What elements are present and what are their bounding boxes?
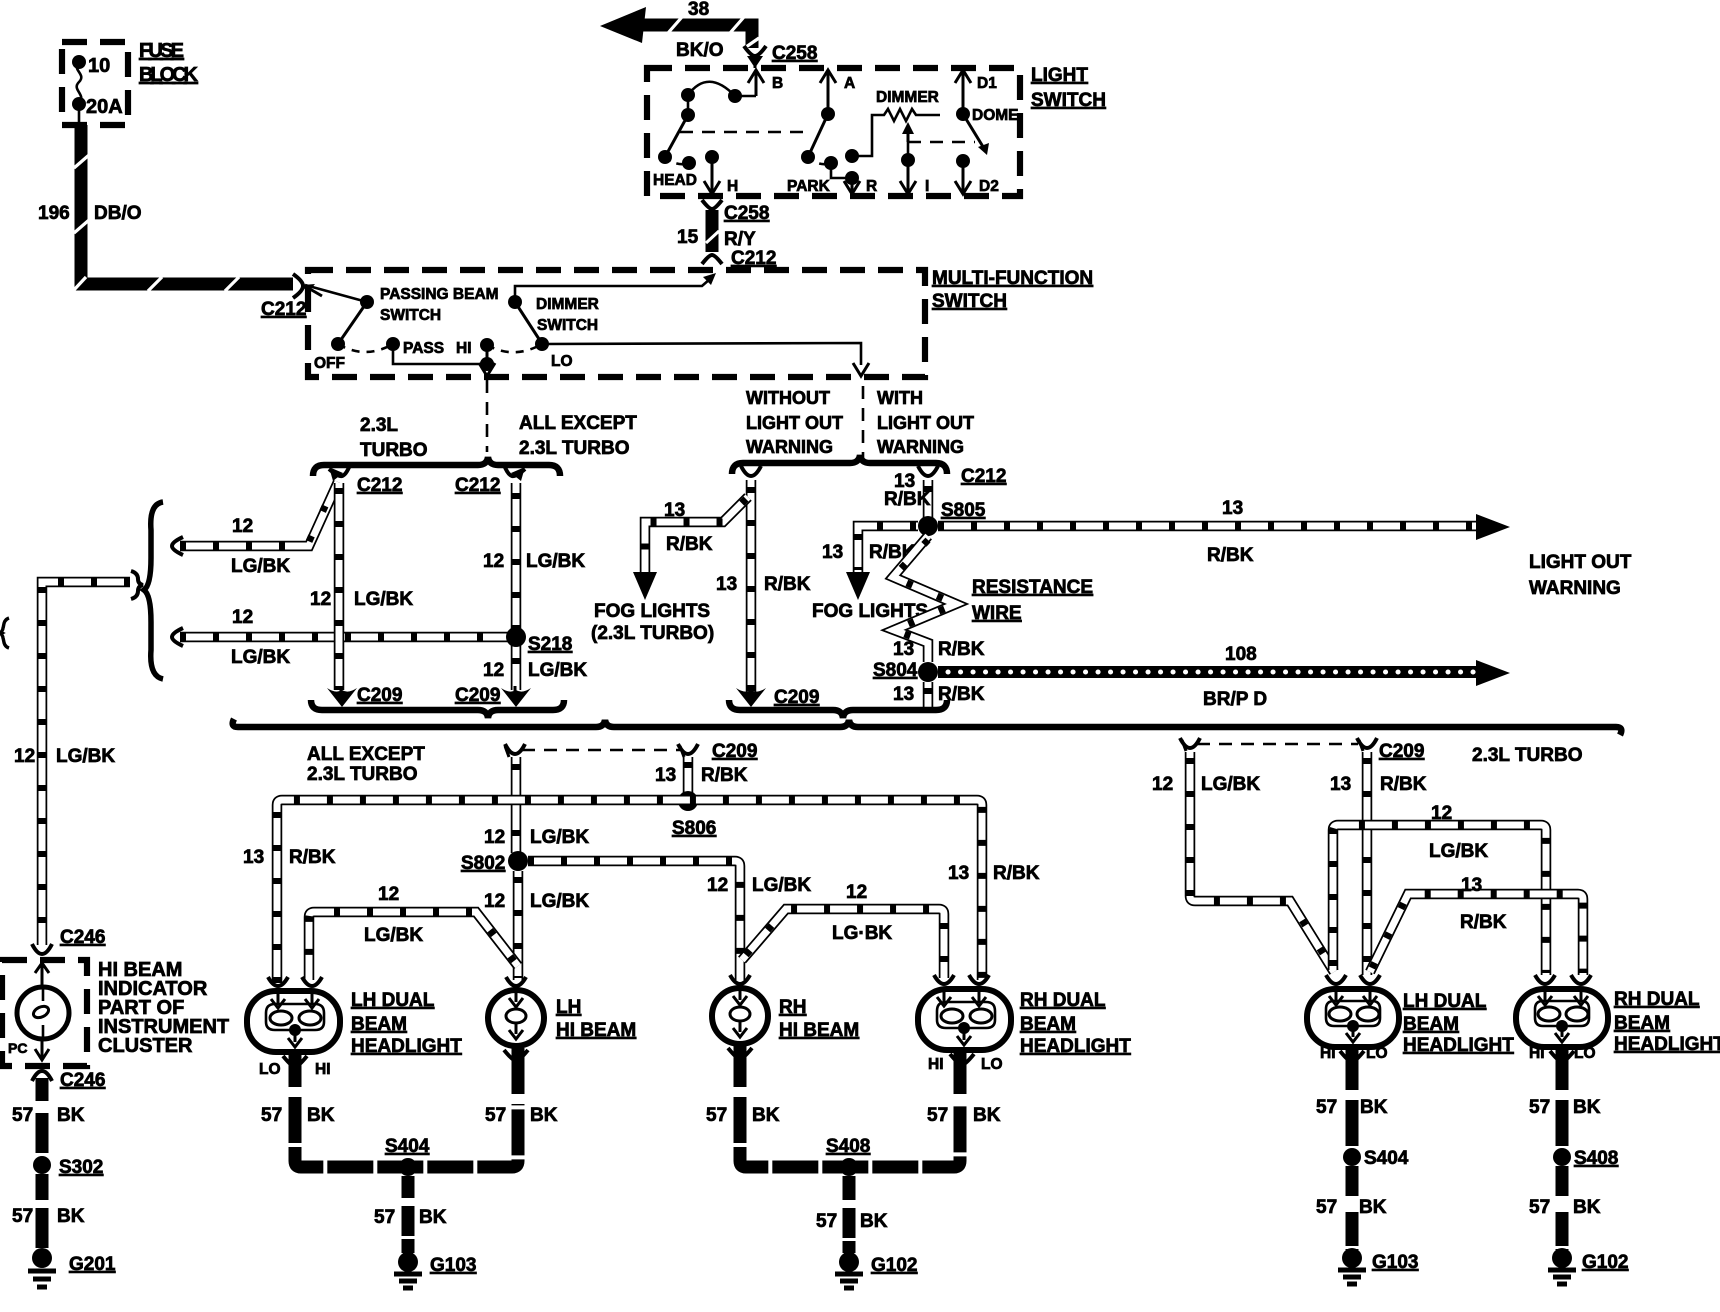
svg-text:WARNING: WARNING xyxy=(1529,578,1621,599)
svg-text:HEADLIGHT: HEADLIGHT xyxy=(1403,1035,1514,1056)
ground G102 xyxy=(835,1252,917,1288)
fog lights arrow (with-warning) xyxy=(812,572,928,622)
svg-text:S804: S804 xyxy=(873,660,918,681)
wire 12 LG/BK (S802 down to LH hi-beam lamp) xyxy=(513,871,524,980)
fuse block FUSE BLOCK xyxy=(62,42,128,125)
wire 12 LG/BK (right vertical, C212 to C209) xyxy=(483,483,585,690)
svg-text:WIRE: WIRE xyxy=(972,603,1022,624)
svg-text:R/BK: R/BK xyxy=(764,574,811,595)
label WITH LIGHT OUT WARNING xyxy=(877,388,974,457)
svg-text:2.3L TURBO: 2.3L TURBO xyxy=(307,764,418,785)
light switch box xyxy=(647,65,1106,196)
svg-text:LIGHT: LIGHT xyxy=(1031,65,1088,86)
svg-text:BR/P D: BR/P D xyxy=(1203,689,1267,710)
svg-text:BK: BK xyxy=(1360,1097,1388,1118)
svg-text:13: 13 xyxy=(1222,498,1243,519)
svg-text:C246: C246 xyxy=(60,1070,105,1091)
svg-text:C209: C209 xyxy=(712,741,757,762)
svg-text:12: 12 xyxy=(484,827,505,848)
svg-text:BEAM: BEAM xyxy=(1614,1013,1670,1034)
svg-text:HI: HI xyxy=(1320,1045,1336,1062)
svg-text:13: 13 xyxy=(1330,774,1351,795)
svg-text:BK: BK xyxy=(57,1206,85,1227)
svg-text:HI BEAM: HI BEAM xyxy=(556,1020,636,1041)
svg-text:SWITCH: SWITCH xyxy=(380,307,441,324)
light switch DOME switch xyxy=(956,107,1019,168)
svg-text:S408: S408 xyxy=(826,1136,870,1157)
svg-text:RESISTANCE: RESISTANCE xyxy=(972,577,1093,598)
svg-text:108: 108 xyxy=(1225,644,1257,665)
wire 38 BK/O xyxy=(600,0,759,61)
svg-text:C212: C212 xyxy=(731,248,776,269)
svg-text:R/BK: R/BK xyxy=(993,863,1040,884)
svg-text:R/BK: R/BK xyxy=(289,847,336,868)
splice S218 xyxy=(483,627,587,681)
svg-text:HI: HI xyxy=(456,340,472,357)
svg-text:LG/BK: LG/BK xyxy=(231,556,290,577)
splice S408 (turbo) xyxy=(1553,1148,1618,1169)
svg-text:LG·BK: LG·BK xyxy=(832,923,892,944)
svg-text:WARNING: WARNING xyxy=(746,437,833,457)
svg-text:C246: C246 xyxy=(60,927,105,948)
connector C246 (bottom of indicator) xyxy=(32,1070,105,1091)
connector C246 (top of indicator) xyxy=(32,927,105,966)
svg-text:B: B xyxy=(772,75,783,92)
svg-text:196: 196 xyxy=(38,203,70,224)
svg-text:C212: C212 xyxy=(357,475,402,496)
light switch PARK switch xyxy=(787,107,859,195)
wire 12 LG/BK (high beam bus) xyxy=(528,861,811,980)
wire 12 LG/BK (C209 to S802) xyxy=(484,757,589,853)
svg-text:C212: C212 xyxy=(455,475,500,496)
svg-text:LO: LO xyxy=(981,1056,1003,1073)
svg-text:12: 12 xyxy=(1431,803,1452,824)
svg-text:BK: BK xyxy=(752,1105,780,1126)
light switch terminal D2 xyxy=(955,161,999,195)
svg-text:C209: C209 xyxy=(357,685,402,706)
svg-text:LG/BK: LG/BK xyxy=(528,660,587,681)
svg-text:13: 13 xyxy=(948,863,969,884)
connector C212 (left, 2.3L turbo column) xyxy=(329,465,402,496)
svg-text:ALL EXCEPT: ALL EXCEPT xyxy=(307,744,425,765)
light switch terminal D1 xyxy=(955,70,997,114)
svg-text:OFF: OFF xyxy=(314,355,345,372)
headlight LH hi beam xyxy=(488,977,636,1061)
svg-text:2.3L TURBO: 2.3L TURBO xyxy=(1472,745,1583,766)
svg-text:DIMMER: DIMMER xyxy=(876,89,939,106)
svg-text:ALL EXCEPT: ALL EXCEPT xyxy=(519,413,637,434)
svg-text:PASS: PASS xyxy=(403,340,444,357)
svg-text:HI: HI xyxy=(315,1061,331,1078)
svg-text:13: 13 xyxy=(1461,875,1482,896)
svg-text:DB/O: DB/O xyxy=(94,203,142,224)
svg-text:WITHOUT: WITHOUT xyxy=(746,388,830,408)
wire 57 BK (turbo RH to ground) xyxy=(1529,1166,1601,1250)
wire dimmer pivot to C212 xyxy=(515,273,716,302)
wire 13 R/BK (turbo, C209 to LH dual LO) xyxy=(1330,752,1427,975)
svg-text:LIGHT OUT: LIGHT OUT xyxy=(746,413,843,433)
svg-text:LG/BK: LG/BK xyxy=(1429,841,1488,862)
svg-text:BK/O: BK/O xyxy=(676,40,724,61)
svg-text:R/BK: R/BK xyxy=(1460,912,1507,933)
splice S408 xyxy=(826,1136,870,1176)
wire 108 BR/P D (dotted, to right arrow) xyxy=(938,644,1510,710)
connector C209 (turbo R/BK) xyxy=(1357,738,1424,762)
wire LO output to warning column xyxy=(542,343,869,376)
svg-text:LG/BK: LG/BK xyxy=(354,589,413,610)
wire HI output (dashed below box) xyxy=(479,345,495,452)
svg-text:LO: LO xyxy=(551,353,573,370)
wire 13 R/BK (branch to fog lights 2.3L turbo) xyxy=(645,497,748,572)
ground G103 xyxy=(394,1252,476,1288)
splice S802 xyxy=(461,851,589,912)
label 2.3L TURBO (top right) xyxy=(1472,745,1583,766)
bracket C209 (lower, right group) xyxy=(729,700,947,718)
svg-text:R/BK: R/BK xyxy=(1207,545,1254,566)
svg-text:13: 13 xyxy=(893,684,914,705)
svg-text:BK: BK xyxy=(419,1207,447,1228)
svg-text:57: 57 xyxy=(816,1211,837,1232)
svg-text:C209: C209 xyxy=(1379,741,1424,762)
svg-text:WITH: WITH xyxy=(877,388,923,408)
svg-text:A: A xyxy=(844,75,855,92)
wire 196 DB/O xyxy=(38,104,293,291)
headlight RH dual beam xyxy=(918,975,1131,1073)
svg-text:57: 57 xyxy=(12,1206,33,1227)
svg-text:LO: LO xyxy=(1574,1045,1596,1062)
wire 12 LG/BK (branch to LH dual HI) xyxy=(309,884,518,980)
svg-text:LO: LO xyxy=(259,1061,281,1078)
svg-text:C212: C212 xyxy=(261,299,306,320)
wire 13 R/BK (low beam bus) xyxy=(243,800,1040,985)
svg-text:S802: S802 xyxy=(461,853,505,874)
fog lights arrow (2.3L turbo) xyxy=(591,572,714,644)
variant separator (dashed) xyxy=(862,386,865,458)
svg-text:HEADLIGHT: HEADLIGHT xyxy=(1020,1036,1131,1057)
brace (page-edge continuation) xyxy=(1,618,9,648)
svg-text:HI: HI xyxy=(928,1056,944,1073)
svg-text:LH: LH xyxy=(556,997,581,1018)
wire PASS to HI node xyxy=(393,344,494,371)
connector C212 (without-warning column) xyxy=(741,466,761,476)
svg-text:12: 12 xyxy=(14,746,35,767)
svg-text:FOG LIGHTS: FOG LIGHTS xyxy=(594,601,710,622)
svg-text:LG/BK: LG/BK xyxy=(1201,774,1260,795)
wire 13 R/BK (S804 to C209) xyxy=(893,682,985,708)
svg-text:BK: BK xyxy=(1573,1197,1601,1218)
connector C209 (to S802 wire) xyxy=(505,744,525,757)
connector C209 (without-warning bottom arrow) xyxy=(736,686,819,708)
splice S805 xyxy=(884,471,986,536)
svg-text:R/Y: R/Y xyxy=(724,229,756,250)
svg-text:13: 13 xyxy=(822,542,843,563)
svg-text:BEAM: BEAM xyxy=(351,1014,407,1035)
harness link (dashed) xyxy=(522,749,680,752)
svg-text:DIMMER: DIMMER xyxy=(536,296,599,313)
svg-text:D2: D2 xyxy=(979,178,999,195)
connector C258 (top of light switch) xyxy=(744,43,817,68)
wire 57 BK (turbo LH ground) xyxy=(1316,1047,1388,1148)
svg-text:57: 57 xyxy=(706,1105,727,1126)
svg-text:LIGHT OUT: LIGHT OUT xyxy=(1529,552,1632,573)
wire 12 LG/BK (branch to RH dual HI) xyxy=(742,882,944,978)
svg-text:13: 13 xyxy=(716,574,737,595)
light switch HEAD switch xyxy=(653,82,756,189)
svg-text:S218: S218 xyxy=(528,634,572,655)
svg-text:HI BEAM: HI BEAM xyxy=(779,1020,859,1041)
connector C212 (with-warning column) xyxy=(918,466,1006,487)
wire 13 R/BK (C212 to S805) xyxy=(923,480,934,518)
svg-text:C258: C258 xyxy=(724,203,769,224)
svg-text:BLOCK: BLOCK xyxy=(139,64,199,86)
light switch terminal R xyxy=(844,178,877,195)
svg-text:MULTI-FUNCTION: MULTI-FUNCTION xyxy=(932,268,1093,289)
svg-text:G102: G102 xyxy=(871,1255,917,1276)
wire 12 LG/BK (upper instrument feed, slant to C212) xyxy=(172,482,338,577)
bracket (engine variants, upper left) xyxy=(313,457,560,476)
label 2.3L TURBO (engine variant left) xyxy=(360,415,428,461)
label ALL EXCEPT 2.3L TURBO (bottom section) xyxy=(307,744,425,785)
svg-text:G102: G102 xyxy=(1582,1252,1628,1273)
svg-text:LO: LO xyxy=(1366,1045,1388,1062)
svg-text:13: 13 xyxy=(655,765,676,786)
splice S404 (turbo) xyxy=(1343,1148,1409,1169)
light switch mechanical links (dashed) xyxy=(680,132,975,142)
resistance wire (zigzag) xyxy=(893,536,1093,662)
svg-text:S806: S806 xyxy=(672,818,716,839)
svg-text:BK: BK xyxy=(1573,1097,1601,1118)
ground G201 xyxy=(28,1248,116,1287)
svg-text:S404: S404 xyxy=(1364,1148,1409,1169)
wire 57 BK (S408 to ground) xyxy=(816,1176,888,1253)
svg-text:WARNING: WARNING xyxy=(877,437,964,457)
headlight LH dual beam (turbo) xyxy=(1307,975,1514,1062)
svg-text:10: 10 xyxy=(88,55,110,77)
svg-text:RH DUAL: RH DUAL xyxy=(1020,990,1106,1011)
svg-text:HEADLIGHT: HEADLIGHT xyxy=(1614,1034,1720,1055)
svg-text:BEAM: BEAM xyxy=(1403,1014,1459,1035)
svg-text:13: 13 xyxy=(893,639,914,660)
bracket (main harness bus) xyxy=(233,719,1622,735)
wire 13 R/BK (turbo low beam link) xyxy=(1370,875,1583,975)
svg-text:BK: BK xyxy=(307,1105,335,1126)
svg-text:RH DUAL: RH DUAL xyxy=(1614,989,1700,1010)
light switch terminal I xyxy=(900,160,929,195)
wire 57 BK (S404 to ground) xyxy=(374,1176,447,1253)
svg-text:57: 57 xyxy=(12,1105,33,1126)
harness link (dashed, turbo) xyxy=(1197,743,1358,746)
connector C209 (to S806 wire) xyxy=(655,741,757,786)
dimmer switch xyxy=(456,295,599,370)
light switch terminal B xyxy=(748,70,783,96)
wire 57 BK (RH ground loop) xyxy=(706,1044,1001,1167)
wire 12 LG/BK (to hi-beam indicator) xyxy=(14,582,130,945)
svg-text:12: 12 xyxy=(484,891,505,912)
svg-text:12: 12 xyxy=(707,875,728,896)
wire 57 BK (turbo LH to ground) xyxy=(1316,1166,1387,1250)
wire 57 BK (LH ground loop) xyxy=(261,1046,558,1167)
svg-text:LH DUAL: LH DUAL xyxy=(351,990,435,1011)
wire 15 R/Y (H to C212) xyxy=(677,200,776,269)
svg-text:PASSING BEAM: PASSING BEAM xyxy=(380,286,499,303)
svg-text:G201: G201 xyxy=(69,1254,116,1275)
svg-text:13: 13 xyxy=(664,500,685,521)
svg-text:C209: C209 xyxy=(774,687,819,708)
svg-text:2.3L TURBO: 2.3L TURBO xyxy=(519,438,630,459)
svg-text:TURBO: TURBO xyxy=(360,440,428,461)
svg-text:LG/BK: LG/BK xyxy=(530,827,589,848)
svg-text:S805: S805 xyxy=(941,500,986,521)
svg-text:LG/BK: LG/BK xyxy=(364,925,423,946)
light switch DIMMER rheostat xyxy=(852,89,940,167)
splice S302 xyxy=(33,1156,103,1178)
svg-text:12: 12 xyxy=(378,884,399,905)
svg-text:LG/BK: LG/BK xyxy=(530,891,589,912)
svg-text:PARK: PARK xyxy=(787,178,831,195)
label WITHOUT LIGHT OUT WARNING xyxy=(746,388,843,457)
svg-text:H: H xyxy=(727,178,738,195)
bracket (light out warning variants) xyxy=(732,455,947,474)
svg-text:G103: G103 xyxy=(430,1255,476,1276)
splice S404 xyxy=(385,1136,430,1176)
connector C209 (left column, arrow into bracket) xyxy=(327,685,402,707)
fuse F (10, 20A) xyxy=(72,40,199,118)
wire 13 R/BK (C209 to S806) xyxy=(683,757,694,794)
svg-text:57: 57 xyxy=(374,1207,395,1228)
svg-text:57: 57 xyxy=(927,1105,948,1126)
connector C209 (turbo LG/BK) xyxy=(1180,738,1200,751)
headlight LH dual beam xyxy=(247,977,462,1078)
svg-text:HEADLIGHT: HEADLIGHT xyxy=(351,1036,462,1057)
ground G103 (turbo) xyxy=(1338,1248,1418,1284)
svg-text:LG/BK: LG/BK xyxy=(526,551,585,572)
svg-text:12: 12 xyxy=(232,516,253,537)
light switch terminal H xyxy=(704,157,738,195)
headlight RH dual beam (turbo) xyxy=(1516,975,1720,1062)
wire 12 LG/BK (turbo, C209 to LH dual HI) xyxy=(1152,752,1334,972)
svg-text:12: 12 xyxy=(232,607,253,628)
svg-text:R/BK: R/BK xyxy=(666,534,713,555)
svg-text:BEAM: BEAM xyxy=(1020,1014,1076,1035)
svg-text:BK: BK xyxy=(1359,1197,1387,1218)
svg-text:S302: S302 xyxy=(59,1157,103,1178)
svg-text:57: 57 xyxy=(1529,1097,1550,1118)
connector C209 (right column, arrow into bracket) xyxy=(455,685,531,707)
svg-text:R/BK: R/BK xyxy=(938,639,985,660)
wire 12 LG/BK (left vertical, C212 to C209) xyxy=(310,483,413,690)
wire 57 BK (indicator to S302) xyxy=(12,1078,85,1156)
wire 13 R/BK (light out warning feed, to right arrow) xyxy=(938,498,1632,599)
wire 12 LG/BK (lower instrument feed to S218) xyxy=(172,607,511,668)
svg-text:LG/BK: LG/BK xyxy=(231,647,290,668)
svg-text:S408: S408 xyxy=(1574,1148,1618,1169)
svg-text:CLUSTER: CLUSTER xyxy=(98,1035,193,1057)
svg-text:R/BK: R/BK xyxy=(1380,774,1427,795)
connector C212 (fuse feed into multi-function switch) xyxy=(261,274,322,320)
brace (instrument cluster wires group) xyxy=(131,502,163,679)
svg-text:HEAD: HEAD xyxy=(653,172,697,189)
svg-text:BK: BK xyxy=(860,1211,888,1232)
wire 57 BK (S302 to ground) xyxy=(12,1174,85,1250)
svg-text:PC: PC xyxy=(8,1040,27,1056)
svg-text:SWITCH: SWITCH xyxy=(537,317,598,334)
svg-text:SWITCH: SWITCH xyxy=(1031,90,1106,111)
svg-text:BK: BK xyxy=(973,1105,1001,1126)
svg-text:R/BK: R/BK xyxy=(884,489,931,510)
svg-text:S404: S404 xyxy=(385,1136,430,1157)
svg-text:15: 15 xyxy=(677,227,699,248)
svg-text:HI: HI xyxy=(1529,1045,1545,1062)
svg-text:(2.3L TURBO): (2.3L TURBO) xyxy=(591,623,714,644)
label ALL EXCEPT 2.3L TURBO xyxy=(519,413,637,459)
splice S804 xyxy=(873,660,938,682)
indicator bulb PC xyxy=(17,963,69,1060)
svg-text:RH: RH xyxy=(779,997,806,1018)
svg-text:12: 12 xyxy=(483,551,504,572)
svg-text:R: R xyxy=(866,178,877,195)
headlight RH hi beam xyxy=(712,975,859,1059)
light switch terminal A xyxy=(820,70,855,114)
svg-text:57: 57 xyxy=(1529,1197,1550,1218)
svg-text:12: 12 xyxy=(846,882,867,903)
svg-text:13: 13 xyxy=(243,847,264,868)
hi beam indicator box (instrument cluster) xyxy=(2,959,229,1066)
multi-function switch box xyxy=(308,268,1093,377)
svg-text:G103: G103 xyxy=(1372,1252,1418,1273)
svg-text:BK: BK xyxy=(57,1105,85,1126)
svg-text:12: 12 xyxy=(483,660,504,681)
svg-text:57: 57 xyxy=(1316,1197,1337,1218)
svg-text:LIGHT OUT: LIGHT OUT xyxy=(877,413,974,433)
svg-text:C209: C209 xyxy=(455,685,500,706)
connector C212 (right column) xyxy=(455,465,525,496)
svg-text:LG/BK: LG/BK xyxy=(752,875,811,896)
svg-text:D1: D1 xyxy=(977,75,997,92)
svg-text:FUSE: FUSE xyxy=(139,40,184,62)
ground G102 (turbo) xyxy=(1548,1248,1628,1284)
svg-text:20A: 20A xyxy=(86,96,123,118)
svg-text:38: 38 xyxy=(688,0,709,20)
passing beam switch xyxy=(305,285,499,372)
svg-text:BK: BK xyxy=(530,1105,558,1126)
wire 13 R/BK (branch to fog lights, with-warning) xyxy=(822,526,918,572)
svg-text:2.3L: 2.3L xyxy=(360,415,398,436)
svg-text:LG/BK: LG/BK xyxy=(56,746,115,767)
svg-text:57: 57 xyxy=(485,1105,506,1126)
svg-text:C258: C258 xyxy=(772,43,817,64)
svg-text:12: 12 xyxy=(1152,774,1173,795)
svg-text:57: 57 xyxy=(1316,1097,1337,1118)
bracket C209 (lower, left group) xyxy=(311,700,564,718)
svg-text:DOME: DOME xyxy=(972,107,1019,124)
svg-text:I: I xyxy=(925,178,929,195)
splice S806 xyxy=(672,791,716,839)
svg-text:C212: C212 xyxy=(961,466,1006,487)
svg-text:SWITCH: SWITCH xyxy=(932,291,1007,312)
svg-text:R/BK: R/BK xyxy=(701,765,748,786)
svg-text:57: 57 xyxy=(261,1105,282,1126)
svg-text:LH DUAL: LH DUAL xyxy=(1403,991,1487,1012)
svg-text:12: 12 xyxy=(310,589,331,610)
wire 12 LG/BK (turbo high beam link) xyxy=(1333,803,1546,975)
wire 13 R/BK (without-warning vertical) xyxy=(716,480,811,692)
wire 57 BK (turbo RH ground) xyxy=(1529,1047,1601,1148)
